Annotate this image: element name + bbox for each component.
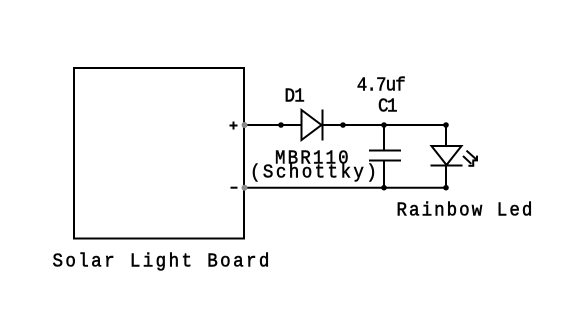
node junction dot capacitor bottom (381, 185, 387, 191)
LED (Rainbow Led) (431, 125, 463, 188)
wire + rail (diode cathode to LED) (323, 124, 448, 126)
svg-text:C1: C1 (378, 96, 398, 118)
node junction dot LED bottom (443, 185, 449, 191)
node junction dot diode cathode (340, 122, 346, 128)
svg-text:4.7uf: 4.7uf (357, 75, 406, 97)
node junction dot on + rail (278, 122, 284, 128)
svg-text:Rainbow Led: Rainbow Led (397, 200, 533, 222)
node junction dot LED top (443, 122, 449, 128)
wire - rail (box to LED bottom) (244, 187, 447, 189)
diode D1 (302, 110, 323, 141)
svg-text:Solar Light Board: Solar Light Board (53, 251, 270, 273)
Solar Light Board box (74, 68, 244, 239)
+ terminal (230, 122, 238, 130)
wire + rail (box to diode anode) (244, 124, 302, 126)
LED light arrow 2 (463, 156, 474, 166)
LED light arrow 1 (467, 151, 479, 161)
node gray dot at + box edge (242, 122, 248, 128)
node junction dot capacitor top (381, 122, 387, 128)
- terminal (231, 187, 238, 189)
capacitor C1 (369, 125, 401, 188)
svg-text:D1: D1 (285, 86, 305, 108)
node gray dot at - box edge (242, 185, 248, 191)
